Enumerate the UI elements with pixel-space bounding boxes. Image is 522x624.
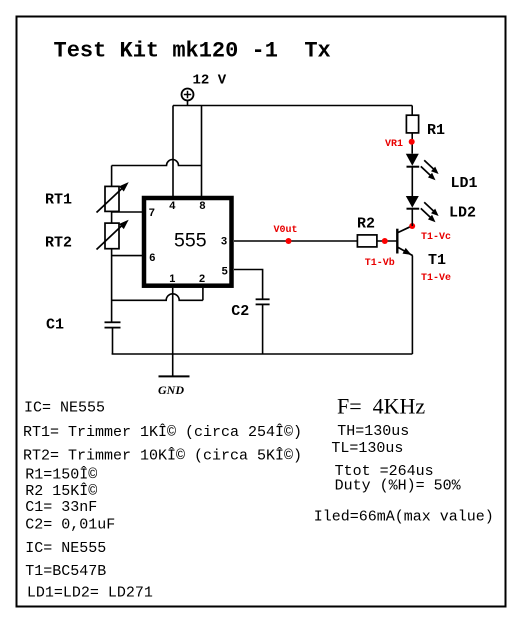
node T1-Vb xyxy=(382,238,388,244)
wire pin8 vertical xyxy=(201,106,203,197)
svg-text:F= 4KHz: F= 4KHz xyxy=(337,394,425,419)
wire supply stub xyxy=(187,101,189,106)
svg-text:RT2: RT2 xyxy=(45,235,72,252)
wire RT2 bottom vertical xyxy=(111,249,113,323)
svg-text:T1-Vb: T1-Vb xyxy=(365,257,395,269)
trimmer RT2 xyxy=(97,220,129,250)
supply symbol +12V xyxy=(182,89,194,101)
wire R1 bottom xyxy=(411,133,413,154)
svg-text:Duty (%H)= 50%: Duty (%H)= 50% xyxy=(335,477,462,494)
wire LED1-LED2 xyxy=(411,167,413,196)
svg-text:IC= NE555: IC= NE555 xyxy=(24,400,105,417)
wire pin1 to ground xyxy=(172,288,174,377)
resistor R1 xyxy=(406,115,418,133)
svg-text:C2: C2 xyxy=(231,303,249,320)
capacitor C1 xyxy=(105,322,121,327)
svg-text:V0ut: V0ut xyxy=(274,225,298,236)
wire RT1 top feed with hop xyxy=(112,160,202,166)
svg-text:8: 8 xyxy=(199,200,205,212)
node VR1 xyxy=(409,139,415,145)
svg-text:VR1: VR1 xyxy=(385,139,403,150)
wire pin2 horizontal with hop xyxy=(112,294,203,300)
wire C2 bottom xyxy=(262,304,264,354)
wire pin4 vertical xyxy=(172,106,174,197)
svg-text:R2: R2 xyxy=(357,216,375,233)
svg-text:555: 555 xyxy=(174,230,207,252)
wire C1 bottom xyxy=(112,328,114,354)
svg-text:T1-Vc: T1-Vc xyxy=(421,232,451,243)
svg-text:C1: C1 xyxy=(46,317,64,334)
wire pin2 vertical xyxy=(202,288,204,301)
wire emitter vertical xyxy=(411,256,413,354)
svg-text:T1=BC547B: T1=BC547B xyxy=(25,563,106,580)
wire R2 to base xyxy=(377,240,397,242)
svg-text:12 V: 12 V xyxy=(193,73,227,89)
svg-text:TH=130us: TH=130us xyxy=(337,423,409,440)
svg-text:RT2= Trimmer 10KÎ© (circa 5KÎ©: RT2= Trimmer 10KÎ© (circa 5KÎ©) xyxy=(23,446,302,464)
diode LD2 xyxy=(406,196,439,222)
trimmer RT1 xyxy=(97,182,129,212)
svg-text:LD1=LD2= LD271: LD1=LD2= LD271 xyxy=(27,584,153,601)
svg-text:T1: T1 xyxy=(428,252,446,269)
wire R1 top xyxy=(411,106,413,116)
wire pin3 output xyxy=(234,240,357,242)
capacitor C2 xyxy=(256,299,270,304)
svg-text:IC= NE555: IC= NE555 xyxy=(25,540,106,557)
svg-text:6: 6 xyxy=(149,252,155,264)
resistor R2 xyxy=(357,235,377,247)
diode LD1 xyxy=(406,154,439,181)
ground xyxy=(159,375,190,377)
wire pin6 xyxy=(112,255,146,257)
svg-text:RT1= Trimmer 1KÎ© (circa 254Î©: RT1= Trimmer 1KÎ© (circa 254Î©) xyxy=(23,423,302,441)
svg-text:C2= 0,01uF: C2= 0,01uF xyxy=(25,516,115,533)
svg-text:RT1: RT1 xyxy=(45,192,72,209)
svg-text:7: 7 xyxy=(149,207,155,219)
wire LED2 to collector xyxy=(411,209,413,226)
svg-text:GND: GND xyxy=(158,383,184,397)
svg-text:Test Kit mk120 -1 Tx: Test Kit mk120 -1 Tx xyxy=(54,39,331,64)
svg-text:T1-Ve: T1-Ve xyxy=(421,273,451,284)
svg-text:1: 1 xyxy=(169,273,175,285)
wire top rail xyxy=(173,105,412,107)
node T1-Vc collector xyxy=(409,223,415,229)
svg-text:5: 5 xyxy=(222,266,228,278)
wire pin5 xyxy=(234,270,263,300)
wire pin7 xyxy=(112,211,146,213)
svg-text:R2 15KÎ©: R2 15KÎ© xyxy=(25,482,97,500)
svg-text:LD2: LD2 xyxy=(449,205,476,222)
wire RT1 top stub xyxy=(111,166,113,187)
wire bottom rail xyxy=(112,353,413,355)
svg-text:3: 3 xyxy=(221,236,227,248)
svg-text:R1=150Î©: R1=150Î© xyxy=(25,466,97,484)
svg-text:C1= 33nF: C1= 33nF xyxy=(25,499,97,516)
op-amp U1 555 IC box xyxy=(144,198,232,286)
svg-text:Iled=66mA(max value): Iled=66mA(max value) xyxy=(314,509,494,526)
svg-text:2: 2 xyxy=(199,273,205,285)
svg-text:LD1: LD1 xyxy=(451,175,478,192)
transistor Q1 T1 xyxy=(397,226,412,256)
svg-text:R1: R1 xyxy=(427,122,445,139)
node VOut xyxy=(286,238,292,244)
wire RT1-RT2 junction xyxy=(111,211,113,223)
svg-text:TL=130us: TL=130us xyxy=(331,440,403,457)
svg-text:4: 4 xyxy=(169,200,176,212)
